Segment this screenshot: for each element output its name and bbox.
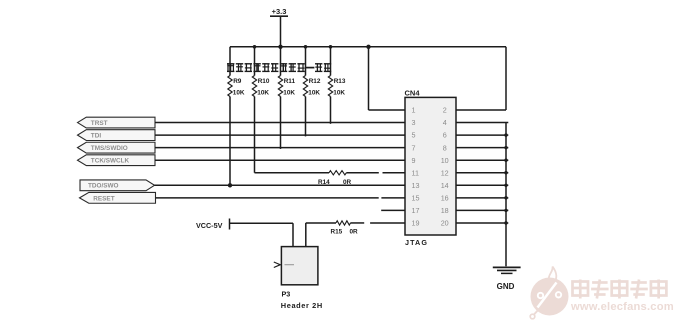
wire pin1 branch horizontal: [369, 109, 406, 111]
svg-text:TDI: TDI: [91, 133, 102, 140]
svg-text:TMS/SWDIO: TMS/SWDIO: [91, 145, 128, 152]
watermark text dianzifashaoyou: [573, 280, 667, 299]
junction gnd bus pin12: [504, 171, 507, 174]
wire gnd vertical bus: [505, 123, 507, 267]
resistor R13: [330, 47, 332, 76]
svg-text:5: 5: [412, 131, 416, 140]
wire pin17 stub: [381, 209, 405, 211]
wire R14 to pin11: [346, 172, 379, 174]
resistor R12: [305, 47, 307, 76]
resistor R10: [254, 47, 256, 76]
junction gnd bus pin20: [504, 221, 507, 224]
svg-text:3: 3: [412, 118, 416, 127]
svg-text:R14: R14: [318, 179, 330, 186]
power +3.3 bar: [270, 15, 288, 17]
watermark logo circle: [530, 267, 568, 319]
junction bus/R13: [329, 45, 333, 49]
svg-text:14: 14: [441, 181, 449, 190]
svg-text:R11: R11: [284, 78, 296, 85]
wire pin6 to gnd bus: [456, 134, 508, 136]
svg-text:6: 6: [443, 131, 447, 140]
svg-text:10K: 10K: [283, 89, 295, 96]
resistor R11: [280, 47, 282, 76]
port flag TCK/SWCLK: [78, 155, 156, 166]
wire pin1 branch vertical: [368, 47, 370, 110]
resistor R15: [336, 221, 351, 225]
svg-text:4: 4: [443, 118, 447, 127]
svg-text:8: 8: [443, 143, 447, 152]
wire R13 bottom: [330, 97, 332, 124]
svg-text:TRST: TRST: [91, 120, 108, 127]
svg-text:10K: 10K: [308, 89, 320, 96]
svg-text:12: 12: [441, 168, 449, 177]
wire pin10 to gnd bus: [456, 159, 508, 161]
svg-text:9: 9: [412, 156, 416, 165]
svg-text:TCK/SWCLK: TCK/SWCLK: [91, 158, 130, 165]
wire TCK to pin9: [155, 159, 405, 161]
svg-text:0R: 0R: [350, 229, 359, 236]
svg-text:P3: P3: [282, 289, 291, 298]
wire R12 bottom: [305, 97, 307, 137]
svg-text:2: 2: [443, 106, 447, 115]
connector CN4 body: [405, 97, 456, 235]
wire TDI to pin5: [155, 134, 405, 136]
svg-text:10K: 10K: [233, 89, 245, 96]
resistor R14: [329, 171, 346, 175]
header P3 body: [281, 247, 318, 285]
svg-text:17: 17: [412, 206, 420, 215]
wire top +3.3 bus: [230, 46, 506, 48]
wire pin14 to gnd bus: [456, 184, 508, 186]
svg-text:www.elecfans.com: www.elecfans.com: [570, 301, 674, 313]
wire R15 to pin19: [351, 222, 365, 224]
svg-text:7: 7: [412, 143, 416, 152]
wire TDO to pin13: [155, 184, 406, 186]
svg-text:15: 15: [412, 193, 420, 202]
svg-text:Header 2H: Header 2H: [281, 301, 323, 310]
junction bus/pin1 branch: [366, 45, 370, 49]
svg-text:10K: 10K: [333, 89, 345, 96]
wire R9 bottom: [229, 97, 231, 186]
svg-text:RESET: RESET: [93, 195, 114, 202]
svg-text:0R: 0R: [343, 179, 352, 186]
svg-text:1: 1: [412, 106, 416, 115]
svg-text:16: 16: [441, 193, 449, 202]
svg-text:R13: R13: [334, 78, 346, 85]
wire P3 pin1 drop: [292, 223, 294, 246]
wire pin18 to gnd bus: [456, 209, 508, 211]
port flag RESET: [80, 192, 156, 203]
junction gnd bus pin16: [504, 196, 507, 199]
svg-text:10: 10: [441, 156, 449, 165]
annotation chinese text: [227, 63, 331, 72]
wire +3.3 stem: [280, 16, 282, 47]
svg-text:R10: R10: [258, 78, 270, 85]
svg-text:11: 11: [412, 168, 419, 177]
wire pin12 to gnd bus: [456, 172, 508, 174]
ground: [493, 266, 521, 268]
junction gnd bus pin18: [504, 209, 507, 212]
wire pin4 to gnd bus: [456, 122, 508, 124]
svg-text:R9: R9: [233, 78, 242, 85]
wire VCC-5V to P3 pin1: [230, 222, 294, 224]
wire pin16 to gnd bus: [456, 197, 508, 199]
wire P3 pin2 rise: [305, 223, 307, 247]
junction gnd bus pin8: [504, 146, 507, 149]
junction R9/TDO: [228, 183, 232, 187]
svg-text:R15: R15: [331, 229, 343, 236]
svg-text:R12: R12: [309, 78, 321, 85]
port flag TRST: [78, 117, 156, 128]
wire pin20 to gnd bus: [456, 222, 508, 224]
svg-text:VCC-5V: VCC-5V: [196, 221, 223, 230]
port flag TMS/SWDIO: [78, 142, 156, 153]
svg-text:18: 18: [441, 206, 449, 215]
svg-text:13: 13: [412, 181, 420, 190]
wire R10 bottom: [254, 97, 256, 173]
wire pin2 to +3.3 riser: [456, 109, 506, 111]
P3 pin1 arrow mark: [274, 262, 281, 268]
svg-text:GND: GND: [497, 282, 515, 291]
svg-text:20: 20: [441, 219, 449, 228]
VCC-5V port bar: [229, 219, 231, 230]
port flag TDI: [78, 130, 156, 141]
wire TRST to pin3: [155, 122, 405, 124]
svg-text:+3.3: +3.3: [272, 7, 287, 16]
wire TMS to pin7: [155, 147, 405, 149]
junction gnd bus pin6: [504, 133, 507, 136]
resistor R9: [229, 47, 231, 76]
svg-text:CN4: CN4: [405, 88, 421, 97]
junction bus/stem: [278, 45, 282, 49]
wire pin8 to gnd bus: [456, 147, 508, 149]
svg-text:10K: 10K: [257, 89, 269, 96]
wire R10 elbow to R14: [255, 172, 330, 174]
wire P3 pin2 to R15: [306, 222, 336, 224]
svg-text:JTAG: JTAG: [405, 238, 428, 247]
junction gnd bus pin10: [504, 159, 507, 162]
svg-text:TDO/SWO: TDO/SWO: [88, 183, 119, 190]
wire RESET to pin15: [156, 197, 379, 199]
junction bus/R10: [253, 45, 257, 49]
junction bus/R12: [304, 45, 308, 49]
port flag TDO/SWO: [80, 180, 155, 191]
junction gnd bus pin14: [504, 184, 507, 187]
wire R11 bottom: [280, 97, 282, 149]
svg-text:19: 19: [412, 219, 420, 228]
